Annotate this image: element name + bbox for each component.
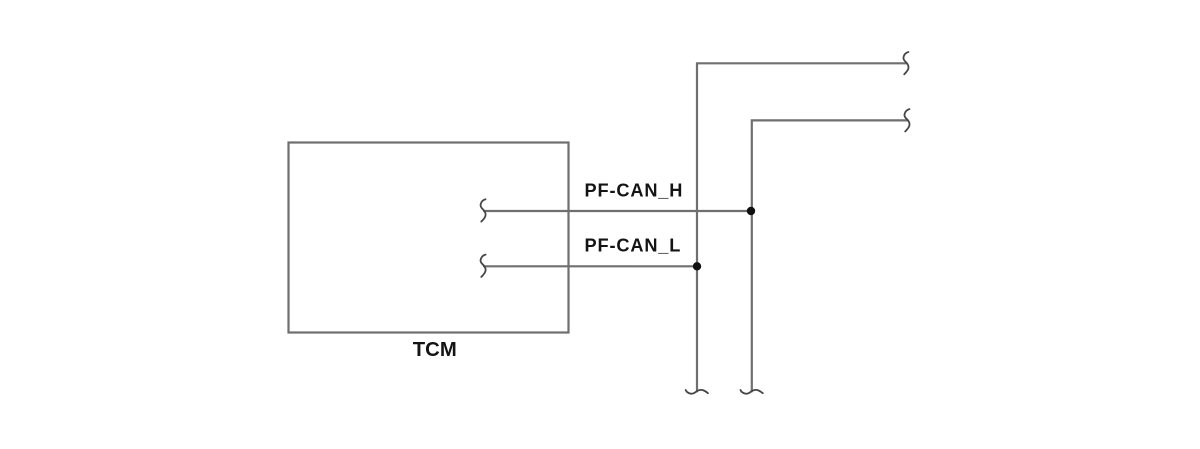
wire vertical CAN_H branch: [697, 63, 906, 391]
wire PF-CAN_L: [484, 265, 697, 267]
break squiggle at second right wire end: [904, 109, 909, 131]
svg-text:PF-CAN_H: PF-CAN_H: [585, 181, 684, 201]
break squiggle at PF-CAN_H wire start: [481, 199, 486, 221]
wire PF-CAN_H: [484, 210, 751, 212]
break squiggle at top-right wire end: [903, 52, 908, 74]
svg-text:PF-CAN_L: PF-CAN_L: [585, 236, 682, 256]
TCM box: [289, 143, 569, 333]
break squiggle at bottom of right vertical wire: [741, 390, 763, 394]
svg-text:TCM: TCM: [413, 339, 457, 361]
wire vertical CAN_L branch: [752, 120, 908, 391]
break squiggle at PF-CAN_L wire start: [481, 255, 486, 277]
junction node on CAN_H: [747, 207, 755, 215]
junction node on CAN_L: [693, 262, 701, 270]
break squiggle at bottom of left vertical wire: [686, 390, 708, 394]
